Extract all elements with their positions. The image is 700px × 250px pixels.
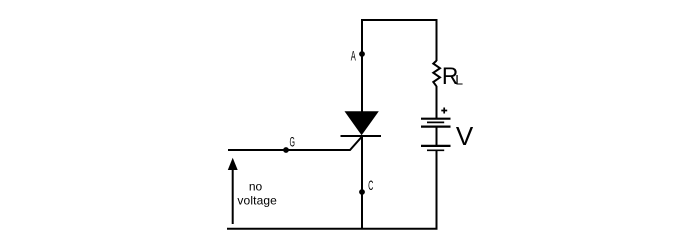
annotation arrow: head — [228, 158, 238, 170]
svg-text:voltage: voltage — [237, 194, 277, 208]
wire: top horizontal — [361, 19, 438, 21]
node C — [359, 189, 365, 195]
svg-text:G: G — [290, 135, 295, 150]
svg-text:no: no — [249, 179, 263, 193]
wire: battery mid — [436, 127, 438, 146]
wire: bottom horizontal — [227, 228, 438, 230]
node G — [283, 147, 289, 153]
battery V: plate short 2 — [427, 149, 444, 151]
svg-text:C: C — [368, 179, 373, 194]
battery V: plate long 3 — [421, 145, 451, 147]
resistor RL zigzag — [433, 61, 440, 87]
svg-text:A: A — [351, 49, 356, 64]
battery V: plus sign — [441, 108, 447, 114]
wire: anode vertical — [361, 19, 363, 112]
wire: right vertical (top to resistor) — [436, 19, 438, 61]
wire: battery to bottom — [436, 150, 438, 229]
thyristor SCR: anode triangle — [345, 111, 379, 135]
battery V: plate long 2 — [421, 125, 451, 127]
node A — [359, 51, 365, 57]
svg-text:V: V — [456, 121, 474, 151]
wire: gate horizontal — [228, 137, 362, 151]
battery V: plate long 1 — [421, 118, 451, 120]
wire: cathode vertical — [361, 136, 363, 230]
wire: resistor to battery — [436, 86, 438, 119]
thyristor SCR: cathode bar — [341, 135, 382, 137]
annotation arrow: shaft — [232, 169, 234, 224]
battery V: plate short 1 — [427, 121, 444, 123]
svg-text:L: L — [455, 72, 463, 88]
